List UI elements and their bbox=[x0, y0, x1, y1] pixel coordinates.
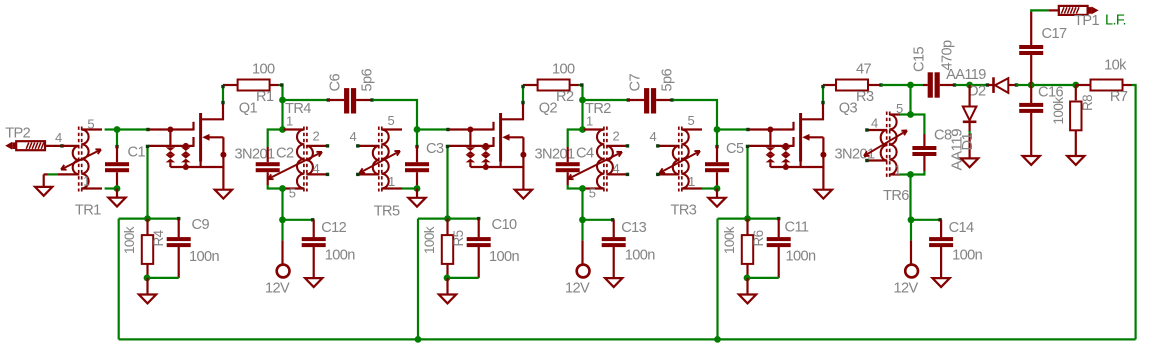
resistor R2 100 bbox=[538, 62, 579, 106]
svg-text:1: 1 bbox=[83, 174, 90, 189]
svg-text:1: 1 bbox=[388, 174, 395, 189]
label 3N201 Q3 bbox=[835, 147, 875, 163]
node G2 bias tee bbox=[718, 215, 779, 222]
transistor Q3 dual-gate MOSFET bbox=[749, 85, 838, 190]
pin 1 TR1 bbox=[83, 174, 90, 189]
wire TR4 pin5 to 12V rail bbox=[281, 189, 283, 220]
svg-text:5: 5 bbox=[688, 113, 695, 128]
svg-text:TR5: TR5 bbox=[374, 204, 400, 220]
tuning arrow TR6 bbox=[864, 131, 907, 157]
pin 5 TR3 bbox=[688, 113, 695, 128]
wire G2 bias riser stage R6 bbox=[746, 145, 749, 219]
supply 12V bbox=[894, 220, 919, 296]
wire TR5 pin1 to node bbox=[402, 185, 420, 192]
wire node B to C7 bbox=[583, 98, 631, 101]
wire TR1 node to Q1 gate1 bbox=[117, 128, 150, 131]
svg-text:1: 1 bbox=[286, 114, 293, 129]
pin 5 TR5 bbox=[388, 113, 395, 128]
svg-text:100n: 100n bbox=[489, 249, 520, 265]
protection diodes at Q3 gate 1 bbox=[766, 127, 776, 168]
svg-text:100n: 100n bbox=[952, 248, 983, 264]
resistor R3 47 bbox=[836, 62, 883, 106]
ground below R8 bbox=[1067, 156, 1084, 165]
svg-text:C15: C15 bbox=[912, 47, 928, 72]
svg-text:R7: R7 bbox=[1110, 89, 1128, 105]
wire TR6 pin5 drop bbox=[907, 85, 914, 118]
wire AGC bus bbox=[119, 336, 1136, 343]
label 3N201 Q1 bbox=[235, 147, 275, 163]
svg-text:R1: R1 bbox=[256, 89, 274, 105]
svg-text:AA119: AA119 bbox=[946, 67, 986, 83]
transformer TR1 bbox=[58, 127, 102, 192]
wire R6 bottom bbox=[744, 275, 779, 282]
diode D2 AA119 bbox=[968, 77, 1018, 99]
svg-text:C9: C9 bbox=[192, 217, 210, 233]
transformer TR3 bbox=[657, 127, 702, 192]
svg-text:4: 4 bbox=[871, 116, 878, 131]
svg-text:R5: R5 bbox=[451, 230, 466, 246]
wire R1 to node A bbox=[279, 83, 286, 103]
pin 1 TR2 bbox=[586, 114, 593, 129]
pin 4 TR6 bbox=[871, 116, 878, 131]
svg-text:R4: R4 bbox=[151, 229, 166, 246]
pin 4 TR2 bbox=[613, 161, 620, 176]
capacitor C7 5p6 bbox=[628, 68, 676, 113]
resistor R7 10k bbox=[1076, 58, 1132, 106]
ground below C5 bbox=[708, 189, 725, 207]
svg-text:100n: 100n bbox=[786, 249, 817, 265]
svg-text:470p: 470p bbox=[940, 40, 956, 71]
svg-text:R3: R3 bbox=[856, 89, 874, 105]
pin 1 TR6 bbox=[894, 163, 901, 178]
pin 4 TR5 bbox=[350, 129, 360, 176]
resistor R1 100 bbox=[238, 62, 279, 106]
wire TR1 pin1 to node bbox=[105, 185, 121, 192]
capacitor C6 5p6 bbox=[328, 68, 376, 113]
capacitor C16 bbox=[1019, 85, 1063, 157]
svg-text:3N201: 3N201 bbox=[535, 147, 575, 163]
svg-text:100k: 100k bbox=[122, 226, 137, 254]
capacitor C1 bbox=[105, 130, 145, 189]
svg-text:TR6: TR6 bbox=[883, 188, 909, 204]
ground below R5 bbox=[439, 278, 456, 304]
pin 1 TR5 bbox=[388, 174, 395, 189]
svg-text:TP2: TP2 bbox=[5, 126, 30, 142]
wire AGC branch down bbox=[417, 219, 419, 340]
svg-text:Q3: Q3 bbox=[839, 101, 858, 117]
ground at Q2 source bbox=[515, 190, 532, 199]
capacitor C5 bbox=[705, 130, 744, 189]
protection diodes at Q1 gate 1 bbox=[166, 127, 176, 168]
wire TR6 pin5 bbox=[900, 113, 911, 115]
ground at Q1 source bbox=[215, 190, 232, 199]
capacitor C17 bbox=[1019, 10, 1067, 85]
svg-text:C17: C17 bbox=[1042, 26, 1067, 42]
svg-text:C4: C4 bbox=[576, 146, 594, 162]
wire TR6 pin1 to 12V rail bbox=[909, 175, 911, 220]
transistor Q1 dual-gate MOSFET bbox=[149, 85, 238, 190]
wire C7 to TR3 node bbox=[673, 100, 720, 133]
protection diodes at Q2 gate 2 bbox=[481, 143, 491, 170]
transformer TR4 bbox=[284, 127, 329, 192]
ground at TR1 primary bbox=[35, 187, 52, 196]
resistor R4 100k bbox=[122, 219, 166, 278]
svg-text:2: 2 bbox=[613, 129, 620, 144]
svg-text:TR1: TR1 bbox=[75, 203, 101, 219]
wire to C14 bbox=[911, 218, 942, 221]
svg-text:10k: 10k bbox=[1104, 58, 1127, 74]
pin 5 TR1 bbox=[87, 117, 94, 132]
ground below C14 bbox=[932, 278, 949, 287]
wire rail to C15 bbox=[911, 84, 924, 86]
svg-text:R8: R8 bbox=[1080, 95, 1095, 111]
svg-text:5p6: 5p6 bbox=[660, 68, 676, 91]
transformer TR6 bbox=[865, 112, 900, 178]
wire D2 to detector node bbox=[1017, 82, 1035, 89]
node 12V junction bbox=[279, 216, 286, 223]
capacitor C8 bbox=[911, 115, 952, 175]
wire node A down to TR4 pin1 bbox=[279, 100, 286, 133]
pin 5 TR6 bbox=[896, 101, 903, 116]
svg-text:1: 1 bbox=[586, 114, 593, 129]
svg-text:C11: C11 bbox=[785, 220, 809, 236]
capacitor C10 100n bbox=[467, 217, 520, 278]
svg-text:TR3: TR3 bbox=[671, 203, 697, 219]
svg-text:5: 5 bbox=[289, 186, 296, 201]
wire TR3 pin1 to node bbox=[702, 185, 720, 192]
label Q3 bbox=[839, 101, 858, 117]
protection diodes at Q2 gate 1 bbox=[466, 127, 476, 168]
connector TP1 test point bbox=[1059, 6, 1100, 29]
resistor R6 100k bbox=[722, 219, 766, 278]
svg-text:100k: 100k bbox=[722, 226, 737, 254]
svg-text:L.F.: L.F. bbox=[1105, 12, 1126, 28]
svg-text:4: 4 bbox=[650, 129, 657, 144]
svg-text:4: 4 bbox=[55, 130, 62, 145]
svg-text:4: 4 bbox=[350, 129, 357, 144]
svg-text:100k: 100k bbox=[422, 226, 437, 254]
svg-text:5p6: 5p6 bbox=[360, 68, 376, 91]
svg-text:100k: 100k bbox=[1051, 97, 1066, 125]
capacitor C12 100n bbox=[302, 220, 356, 278]
tuning arrow TR1 bbox=[61, 149, 101, 169]
capacitor C9 100n bbox=[167, 217, 220, 278]
pin 1 TR3 bbox=[688, 174, 695, 189]
ground below C3 bbox=[408, 189, 425, 207]
resistor R5 100k bbox=[422, 219, 466, 278]
ground below R4 bbox=[139, 278, 156, 304]
label TR4 bbox=[285, 101, 311, 117]
wire AGC branch down bbox=[118, 219, 120, 340]
wire TR3 node to Q3 gate1 bbox=[717, 128, 750, 131]
svg-text:TP1: TP1 bbox=[1074, 13, 1099, 29]
svg-text:12V: 12V bbox=[894, 280, 919, 296]
capacitor C3 bbox=[405, 130, 444, 189]
wire node B down to TR2 pin1 bbox=[579, 100, 586, 133]
svg-text:1: 1 bbox=[688, 174, 695, 189]
tuning arrow TR3 bbox=[660, 151, 701, 173]
node 12V junction bbox=[908, 216, 915, 223]
svg-text:3N201: 3N201 bbox=[235, 147, 275, 163]
transformer TR5 bbox=[357, 127, 402, 192]
svg-text:C14: C14 bbox=[949, 220, 974, 236]
wire to C13 bbox=[583, 218, 615, 221]
ground below C1 bbox=[108, 189, 125, 207]
capacitor C15 470p bbox=[912, 40, 957, 98]
wire TR1 pin5 to node bbox=[105, 126, 121, 133]
svg-text:R6: R6 bbox=[751, 230, 766, 246]
transistor Q2 dual-gate MOSFET bbox=[449, 85, 538, 190]
wire C6 to TR5 node bbox=[373, 100, 421, 133]
wire R7 to AGC line bbox=[1132, 85, 1136, 339]
wire AGC branch down bbox=[716, 219, 718, 340]
wire to D2 bbox=[970, 83, 990, 86]
capacitor C4 bbox=[556, 130, 594, 189]
wire R4 bottom bbox=[144, 275, 179, 282]
capacitor C11 100n bbox=[767, 217, 816, 278]
label TR3 bbox=[671, 203, 697, 219]
svg-text:C10: C10 bbox=[492, 217, 517, 233]
svg-text:1: 1 bbox=[894, 163, 901, 178]
svg-text:D1: D1 bbox=[960, 133, 976, 151]
wire G2 bias riser stage R5 bbox=[446, 145, 449, 219]
svg-text:C13: C13 bbox=[621, 220, 646, 236]
svg-text:100: 100 bbox=[252, 62, 275, 78]
wire C15 to diode node bbox=[955, 82, 973, 89]
svg-text:C2: C2 bbox=[276, 146, 294, 162]
label TR2 bbox=[585, 101, 611, 117]
ground at Q3 source bbox=[815, 190, 832, 199]
node TR4 pin5 bbox=[279, 185, 286, 192]
pin 4 TR3 bbox=[650, 129, 660, 176]
wire node A to C6 bbox=[283, 98, 331, 101]
capacitor C14 100n bbox=[929, 220, 983, 278]
tuning arrow TR4 bbox=[268, 152, 322, 179]
svg-text:5: 5 bbox=[388, 113, 395, 128]
wire R5 bottom bbox=[444, 275, 479, 282]
label TR5 bbox=[374, 204, 400, 220]
label 3N201 Q2 bbox=[535, 147, 575, 163]
connector TP2 test point bbox=[5, 126, 45, 151]
net label L.F. bbox=[1105, 12, 1126, 28]
svg-text:2: 2 bbox=[313, 129, 320, 144]
svg-text:C7: C7 bbox=[628, 74, 644, 92]
node G2 bias tee bbox=[119, 215, 179, 222]
svg-text:C5: C5 bbox=[726, 141, 744, 157]
svg-text:Q1: Q1 bbox=[239, 101, 258, 117]
svg-text:5: 5 bbox=[589, 186, 596, 201]
svg-text:100n: 100n bbox=[189, 249, 220, 265]
pin 2 TR4 bbox=[313, 129, 320, 144]
protection diodes at Q3 gate 2 bbox=[781, 143, 791, 170]
wire R3 to detector rail bbox=[881, 82, 914, 89]
svg-text:4: 4 bbox=[313, 161, 320, 176]
wire R2 to node B bbox=[579, 83, 586, 103]
supply 12V bbox=[565, 220, 590, 296]
label TR6 bbox=[883, 188, 909, 204]
label Q2 bbox=[539, 101, 558, 117]
node TR2 pin5 bbox=[579, 185, 586, 192]
label TR1 bbox=[75, 203, 101, 219]
tuning arrow TR5 bbox=[360, 151, 401, 173]
pin 5 TR2 bbox=[589, 186, 596, 201]
transformer TR2 bbox=[584, 127, 629, 192]
svg-text:100n: 100n bbox=[625, 248, 656, 264]
node 12V junction bbox=[579, 216, 586, 223]
svg-text:R2: R2 bbox=[556, 89, 574, 105]
resistor R8 100k bbox=[1051, 85, 1095, 156]
protection diodes at Q1 gate 2 bbox=[181, 143, 191, 170]
svg-text:C6: C6 bbox=[328, 74, 344, 92]
svg-text:100n: 100n bbox=[325, 248, 356, 264]
pin 5 TR4 bbox=[289, 186, 296, 201]
pin 2 TR2 bbox=[613, 129, 620, 144]
wire G2 bias riser stage R4 bbox=[146, 145, 149, 219]
svg-text:100: 100 bbox=[552, 62, 575, 78]
pin 1 TR4 bbox=[286, 114, 293, 129]
capacitor C13 100n bbox=[602, 220, 656, 278]
capacitor C2 bbox=[256, 130, 294, 189]
wire TR5 node to Q2 gate1 bbox=[417, 128, 450, 131]
svg-text:5: 5 bbox=[87, 117, 94, 132]
wire TR1 primary to ground bbox=[44, 174, 58, 187]
ground below C12 bbox=[305, 278, 322, 287]
svg-text:Q2: Q2 bbox=[539, 101, 558, 117]
svg-text:12V: 12V bbox=[265, 280, 290, 296]
wire TR2 pin5 to 12V rail bbox=[581, 189, 583, 220]
ground below D1 bbox=[961, 158, 978, 167]
ground below C13 bbox=[605, 278, 622, 287]
diode D1 AA119 bbox=[949, 85, 977, 171]
wire TR6 pin1 bbox=[900, 171, 914, 178]
wire TP2 to TR1 pin 4 bbox=[45, 130, 64, 148]
svg-text:C1: C1 bbox=[128, 145, 146, 161]
svg-text:C3: C3 bbox=[426, 141, 444, 157]
pin 4 TR4 bbox=[313, 161, 320, 176]
svg-text:C12: C12 bbox=[321, 220, 346, 236]
svg-text:47: 47 bbox=[856, 62, 872, 78]
node G2 bias tee bbox=[418, 215, 479, 222]
svg-text:4: 4 bbox=[613, 161, 620, 176]
wire detector node to R8 node bbox=[1031, 82, 1079, 89]
ground below R6 bbox=[739, 278, 756, 304]
ground below C16 bbox=[1023, 156, 1040, 165]
tuning arrow TR2 bbox=[568, 152, 622, 179]
supply 12V bbox=[265, 220, 290, 296]
wire to C12 bbox=[283, 218, 315, 221]
label Q1 bbox=[239, 101, 258, 117]
svg-text:12V: 12V bbox=[565, 280, 590, 296]
label AA119 D2 bbox=[946, 67, 986, 83]
